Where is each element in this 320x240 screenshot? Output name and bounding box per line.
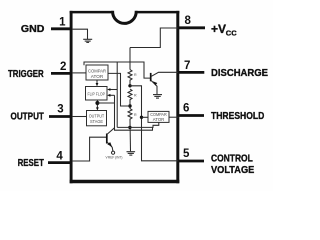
- pin 3 stub: [49, 115, 72, 118]
- wire pin3 to output stage: [72, 116, 87, 118]
- pin 6 stub: [178, 114, 204, 117]
- pin 4 stub: [48, 161, 72, 164]
- svg-text:3: 3: [57, 104, 63, 116]
- svg-text:TRIGGER: TRIGGER: [8, 68, 44, 80]
- svg-text:COMPAR: COMPAR: [88, 68, 106, 73]
- transistor Q1 collector to pin 7: [151, 72, 178, 76]
- transistor Q1 discharge: base bar: [150, 73, 152, 81]
- svg-text:ATOR: ATOR: [91, 74, 104, 79]
- pin 5 stub: [178, 160, 204, 163]
- wire comparator1 output to flip-flop with arrow: [96, 80, 98, 84]
- package notch (index semicircle): [113, 0, 137, 23]
- ground symbol at Q1 emitter: [153, 95, 162, 99]
- svg-text:4: 4: [56, 150, 63, 162]
- flip-flop U3 box: [86, 87, 108, 101]
- pin 8 stub: [178, 26, 205, 29]
- svg-text:STAGE: STAGE: [90, 119, 103, 124]
- svg-text:VOLTAGE: VOLTAGE: [211, 164, 254, 176]
- wire flip-flop to output stage with junction dot and arrow: [96, 100, 98, 109]
- wire node A to comparator 2 reference and control voltage: [130, 86, 178, 161]
- pin 1 stub: [51, 27, 72, 30]
- comparator U2 (trigger) box: [86, 65, 108, 80]
- terminal circle Vref: [112, 151, 115, 154]
- svg-text:5: 5: [183, 148, 190, 160]
- svg-text:ATOR: ATOR: [153, 117, 165, 122]
- svg-text:GND: GND: [21, 23, 45, 35]
- svg-text:CC: CC: [226, 28, 237, 37]
- resistor divider chain top wire: [129, 48, 131, 70]
- node control-voltage branch dot: [140, 116, 143, 119]
- node divider/reset-bus junction dot: [128, 126, 131, 129]
- wire pin2 to comparator 1: [72, 72, 86, 74]
- output stage U4 box: [87, 111, 107, 126]
- node B junction dot (1/3 Vcc tap): [128, 104, 131, 107]
- resistor R1: [128, 70, 132, 82]
- wire pin4 to reset transistor base: [72, 137, 106, 161]
- svg-text:R: R: [134, 113, 137, 117]
- resistor R3: [128, 109, 132, 121]
- transistor Q2 collector to flip-flop bus: [107, 128, 115, 135]
- svg-text:V REF (INT): V REF (INT): [106, 156, 123, 160]
- pin 7 stub: [178, 71, 204, 74]
- node A junction dot (2/3 Vcc tap): [128, 84, 131, 87]
- transistor Q2 reset: base bar: [106, 134, 108, 144]
- svg-text:2: 2: [60, 61, 66, 73]
- wire set input bus V1 to flip-flop (arrow): [116, 62, 118, 127]
- wire node to comparator 2 input: [142, 116, 149, 118]
- ground symbol at pin 1: [83, 39, 92, 42]
- transistor Q2 emitter with arrow to Vref terminal: [107, 142, 113, 151]
- IC package U1 DIP-8 outline: [70, 11, 180, 183]
- wire discharge-base net from comparator1 top across to Q2 base: [84, 62, 150, 78]
- wire reset input bus V2 to flip-flop (arrow): [115, 95, 153, 130]
- wire R2 to node B: [129, 101, 131, 109]
- wire flip-flop output branch to set/reset bus: [97, 102, 114, 104]
- wire node B to comparator 1 reference input: [108, 73, 130, 106]
- resistor R2: [128, 89, 132, 101]
- transistor Q1 emitter with arrow: [151, 80, 157, 94]
- svg-text:R: R: [134, 94, 137, 98]
- svg-text:RESET: RESET: [18, 157, 45, 169]
- svg-text:7: 7: [184, 60, 190, 72]
- svg-text:R: R: [134, 73, 137, 77]
- svg-text:FLIP FLOP: FLIP FLOP: [87, 91, 105, 96]
- svg-text:8: 8: [185, 15, 192, 27]
- wire R3 to ground rail: [129, 121, 132, 152]
- wire comparator 2 to pin 6: [169, 116, 179, 118]
- svg-text:OUTPUT: OUTPUT: [89, 114, 105, 119]
- svg-text:CONTROL: CONTROL: [211, 152, 253, 164]
- node junction dot: [95, 101, 99, 105]
- ground symbol below divider: [127, 152, 136, 155]
- wire pin1 to internal ground: [72, 29, 88, 39]
- svg-text:THRESHOLD: THRESHOLD: [211, 110, 265, 122]
- wire comparator 2 output rail to flip-flop bus: [117, 122, 159, 127]
- svg-text:1: 1: [59, 16, 66, 28]
- comparator U5 (threshold) box: [148, 111, 169, 122]
- wire R1 to node A: [129, 81, 131, 86]
- wire Vcc rail from pin 8: [130, 28, 178, 48]
- svg-text:DISCHARGE: DISCHARGE: [211, 67, 268, 79]
- svg-text:OUTPUT: OUTPUT: [11, 110, 45, 122]
- svg-text:6: 6: [183, 103, 189, 115]
- pin 2 stub: [51, 72, 72, 75]
- svg-text:+V: +V: [211, 22, 226, 36]
